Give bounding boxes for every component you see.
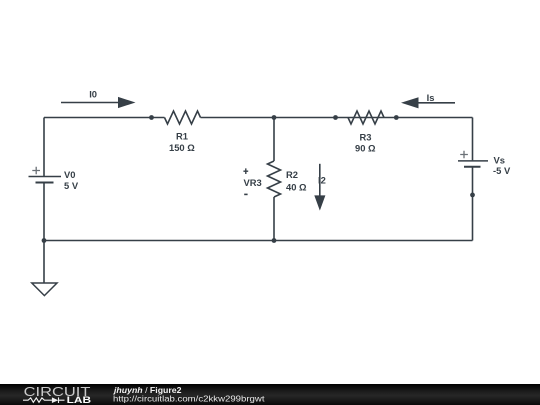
- wire right vertical upper: [472, 118, 474, 161]
- battery Vs plate positive: [458, 160, 488, 162]
- label R2 designator: [286, 169, 298, 180]
- current arrow Is: [401, 97, 455, 108]
- junction node B (top of R2): [272, 115, 277, 120]
- svg-text:40 Ω: 40 Ω: [286, 181, 307, 192]
- svg-text:LAB: LAB: [67, 395, 92, 405]
- svg-text:I0: I0: [89, 89, 97, 100]
- wire top-right segment (through R3): [201, 117, 473, 119]
- ground symbol: [32, 283, 57, 296]
- battery V0 plate positive: [29, 176, 62, 178]
- label Vs designator: [494, 155, 505, 166]
- credit line url: [113, 394, 265, 404]
- svg-text:R1: R1: [176, 131, 188, 142]
- credit line author/title: [113, 385, 182, 395]
- svg-text:90 Ω: 90 Ω: [355, 143, 376, 154]
- current arrow I0: [61, 97, 136, 108]
- CircuitLab logo diode: [52, 397, 65, 403]
- junction node A: [149, 115, 154, 120]
- label I2: [318, 174, 326, 185]
- CircuitLab logo resistor: [23, 398, 52, 402]
- svg-text:http://circuitlab.com/c2kkw299: http://circuitlab.com/c2kkw299brgwt: [113, 394, 265, 404]
- label VR3 name: [244, 177, 262, 188]
- svg-text:V0: V0: [64, 169, 75, 180]
- Vs polarity plus: [460, 151, 468, 158]
- svg-text:Vs: Vs: [494, 155, 505, 166]
- label Is: [427, 92, 435, 103]
- wire left vertical lower to ground: [43, 183, 45, 283]
- battery Vs plate negative: [464, 166, 481, 168]
- CircuitLab logo word LAB: [67, 395, 92, 405]
- wire R2 branch lower: [273, 197, 275, 241]
- junction node E (Vs negative): [470, 193, 475, 198]
- wire R2 branch upper: [273, 118, 275, 162]
- wire top-left segment: [44, 117, 165, 119]
- svg-text:-5 V: -5 V: [493, 165, 511, 176]
- label Vs value: [493, 165, 511, 176]
- wire right vertical lower: [472, 167, 474, 240]
- label I0: [89, 89, 97, 100]
- label R2 value: [286, 181, 307, 192]
- label R1 designator: [176, 131, 188, 142]
- junction node F (bottom left): [42, 238, 47, 243]
- resistor R2: [268, 161, 281, 197]
- svg-text:R3: R3: [360, 132, 372, 143]
- svg-text:150 Ω: 150 Ω: [169, 142, 195, 153]
- label V0 designator: [64, 169, 75, 180]
- resistor R3: [348, 111, 384, 124]
- svg-text:Is: Is: [427, 92, 435, 103]
- resistor R1: [165, 111, 201, 124]
- wire left vertical upper: [43, 118, 45, 177]
- svg-text:VR3: VR3: [244, 177, 262, 188]
- CircuitLab logo word CIRCUIT: [24, 384, 91, 399]
- svg-text:5 V: 5 V: [64, 180, 79, 191]
- junction node D (right of R3): [394, 115, 399, 120]
- label V0 value: [64, 180, 79, 191]
- label R1 value: [169, 142, 195, 153]
- V0 polarity plus: [32, 167, 40, 174]
- svg-text:I2: I2: [318, 174, 326, 185]
- label VR3 minus: [244, 193, 247, 195]
- label VR3 plus: [243, 168, 248, 174]
- footer bar: [0, 384, 540, 405]
- svg-text:R2: R2: [286, 169, 298, 180]
- label R3 value: [355, 143, 376, 154]
- junction node G (bottom of R2): [272, 238, 277, 243]
- current arrow I2: [314, 164, 325, 211]
- battery V0 plate negative: [36, 182, 54, 184]
- junction node C (left of R3): [333, 115, 338, 120]
- label R3 designator: [360, 132, 372, 143]
- wire bottom: [44, 240, 473, 242]
